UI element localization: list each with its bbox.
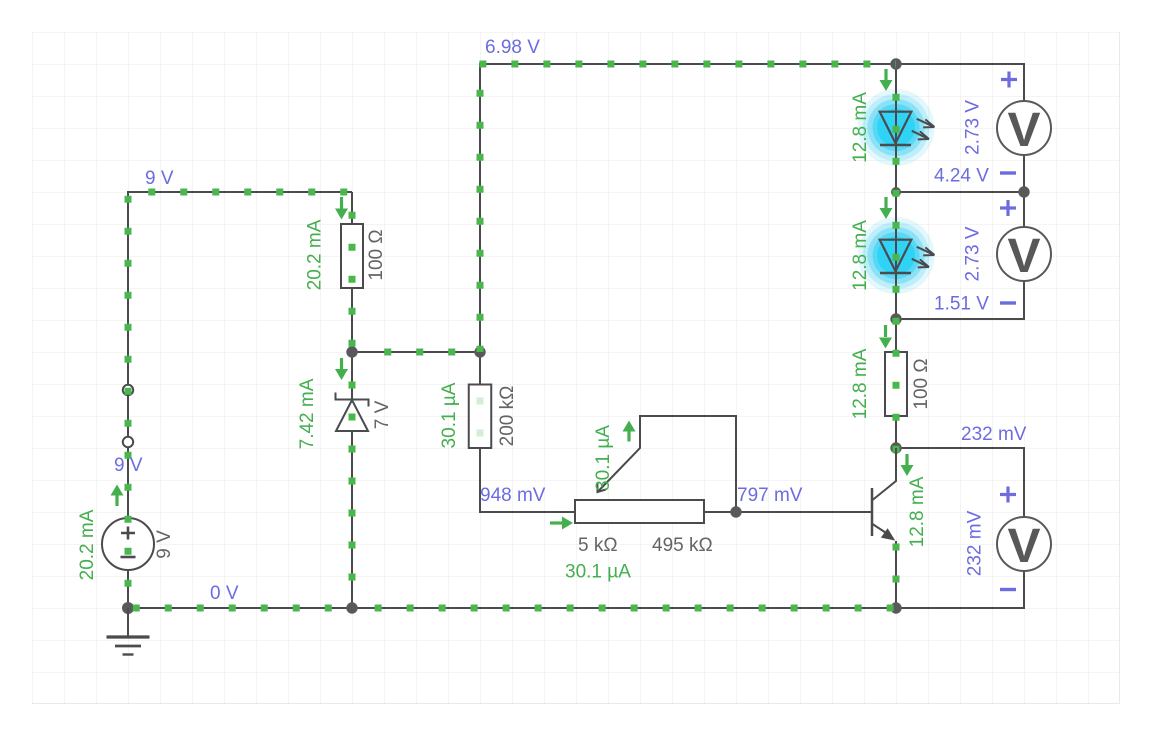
- current arrow zener: [340, 358, 343, 369]
- svg-text:12.8 mA: 12.8 mA: [850, 220, 871, 291]
- ground bar 2: [115, 645, 141, 648]
- wire ground rail: [128, 570, 1024, 608]
- current arrow R2: [884, 325, 887, 337]
- svg-text:232 mV: 232 mV: [961, 424, 1027, 445]
- LED D2 glow: [858, 217, 935, 294]
- current arrow LED1: [884, 69, 887, 80]
- node collector junction: [890, 442, 901, 453]
- wire left loop: top 9V rail and left column: [128, 192, 352, 608]
- svg-text:30.1 µA: 30.1 µA: [565, 561, 631, 582]
- svg-text:797 mV: 797 mV: [737, 485, 803, 506]
- resistor R2 100 ohm body: [885, 352, 907, 416]
- current dashes zener branch: [349, 382, 356, 605]
- resistor 200k body: [469, 385, 492, 449]
- voltmeter M2 body: [997, 227, 1051, 281]
- svg-text:200 kΩ: 200 kΩ: [497, 386, 518, 447]
- svg-text:2.73 V: 2.73 V: [963, 100, 984, 155]
- svg-text:2.73 V: 2.73 V: [963, 226, 984, 281]
- svg-text:20.2 mA: 20.2 mA: [77, 509, 98, 580]
- battery V1 9V body: [102, 518, 154, 570]
- voltmeter M3 minus sign: [1000, 588, 1016, 591]
- svg-text:232 mV: 232 mV: [965, 510, 986, 576]
- current dashes R1 branch: [349, 212, 356, 352]
- current arrow collector: [905, 454, 908, 465]
- svg-text:1.51 V: 1.51 V: [934, 294, 989, 315]
- svg-text:9 V: 9 V: [154, 530, 175, 559]
- current dashes LED column: [893, 94, 900, 476]
- svg-text:4.24 V: 4.24 V: [934, 166, 989, 187]
- svg-text:7 V: 7 V: [372, 400, 393, 429]
- voltmeter M3 body: [997, 517, 1051, 571]
- node 1.51V junction: [890, 313, 901, 324]
- node 4.24V meter junction: [1018, 186, 1029, 197]
- svg-text:495 kΩ: 495 kΩ: [652, 535, 713, 556]
- svg-text:100 Ω: 100 Ω: [911, 358, 932, 409]
- wire 200k to pot: [480, 352, 576, 512]
- switch S1 terminal circle bottom: [123, 437, 133, 447]
- current arrow LED2: [884, 197, 887, 208]
- current dashes ground rail mid: [375, 605, 896, 612]
- current dashes 9V rail: [148, 189, 352, 196]
- wire emitter column: [895, 541, 897, 608]
- wire R1 branch: [351, 192, 353, 352]
- wire voltmeter V3 top: [896, 448, 1024, 518]
- current arrow pot input (right): [550, 521, 562, 524]
- voltmeter M1 plus sign: [1001, 72, 1017, 88]
- node pot wiper junction: [730, 506, 741, 517]
- wire voltmeter V1 bottom: [896, 155, 1024, 193]
- current dashes node wire: [384, 349, 480, 356]
- node 200k top junction: [474, 346, 485, 357]
- svg-text:V: V: [1008, 104, 1041, 157]
- svg-text:30.1 µA: 30.1 µA: [439, 382, 460, 448]
- battery plus sign: [121, 527, 135, 540]
- wire zener branch: [351, 352, 353, 608]
- transistor Q1: [871, 488, 874, 536]
- svg-text:948 mV: 948 mV: [480, 485, 546, 506]
- svg-text:100 Ω: 100 Ω: [366, 229, 387, 280]
- svg-text:0 V: 0 V: [210, 583, 239, 604]
- voltmeter M2 plus sign: [1000, 200, 1016, 216]
- svg-text:30.1 µA: 30.1 µA: [593, 425, 614, 491]
- svg-text:12.8 mA: 12.8 mA: [907, 476, 928, 547]
- svg-text:9 V: 9 V: [145, 168, 174, 189]
- svg-text:12.8 mA: 12.8 mA: [850, 92, 871, 163]
- current dashes 200k faint: [477, 398, 484, 449]
- LED D1 symbol: [880, 112, 912, 144]
- node 6.98V junction: [890, 58, 901, 69]
- voltmeter M2 minus sign: [1000, 301, 1016, 304]
- svg-text:7.42 mA: 7.42 mA: [297, 378, 318, 449]
- voltmeter M3 plus sign: [1000, 487, 1016, 503]
- node 4.24V LED junction: [891, 187, 901, 197]
- svg-text:V: V: [1008, 230, 1041, 283]
- resistor R1 100 ohm body: [341, 224, 363, 288]
- wire 6.98V rail: [480, 64, 896, 352]
- wire pot wiper: [598, 416, 737, 512]
- svg-text:V: V: [1008, 520, 1041, 573]
- svg-text:6.98 V: 6.98 V: [485, 37, 540, 58]
- wiper arrowhead: [597, 483, 605, 492]
- node battery ground junction: [122, 602, 134, 614]
- voltmeter M1 minus sign: [1000, 171, 1016, 174]
- wire LED column: [895, 64, 897, 481]
- wire node 352,352 to 480,352: [352, 351, 480, 353]
- voltmeter M1 body: [997, 101, 1051, 155]
- node emitter ground junction: [890, 602, 901, 613]
- wire voltmeter V1 top: [896, 64, 1024, 102]
- current arrow wiper (up): [627, 431, 630, 442]
- svg-text:9 V: 9 V: [114, 455, 143, 476]
- wire voltmeter V2 bottom: [896, 281, 1024, 320]
- wire voltmeter V2 top: [1023, 192, 1025, 228]
- current dashes 6.98V rail vertical: [477, 90, 484, 352]
- svg-text:20.2 mA: 20.2 mA: [305, 219, 326, 290]
- svg-text:12.8 mA: 12.8 mA: [850, 348, 871, 419]
- current arrow R1: [340, 197, 343, 209]
- zener diode D3 symbol: [336, 393, 369, 407]
- wire pot to base: [704, 511, 872, 513]
- current dashes ground rail left: [133, 605, 352, 612]
- current arrow battery (up): [115, 495, 118, 506]
- LED D1 glow: [858, 89, 935, 166]
- potentiometer body: [575, 500, 704, 523]
- switch S1 terminal circle top: [123, 385, 133, 395]
- battery minus plate: [121, 556, 136, 559]
- ground stem: [127, 608, 129, 636]
- LED D2 symbol: [880, 240, 912, 272]
- node zener ground junction: [346, 602, 357, 613]
- current dashes left column: [125, 196, 132, 604]
- ground bar 3: [123, 653, 134, 655]
- ground bar 1: [107, 635, 150, 638]
- current dashes 6.98V rail horizontal: [479, 61, 896, 68]
- svg-text:5 kΩ: 5 kΩ: [578, 535, 618, 556]
- node zener top junction: [346, 346, 357, 357]
- current dashes emitter: [893, 544, 900, 605]
